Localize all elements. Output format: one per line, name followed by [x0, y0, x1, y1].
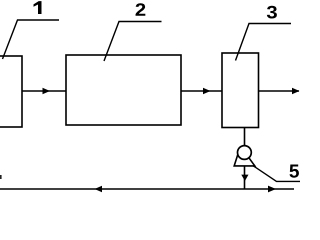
arrowhead on wire 1-2	[43, 88, 51, 94]
arrowhead pointing left on bottom line	[95, 186, 103, 192]
label 1	[34, 1, 42, 14]
wire box3 down to pump	[244, 128, 246, 148]
arrowhead on wire 2-3	[203, 88, 211, 94]
label 3	[267, 6, 277, 19]
arrowhead pointing right on bottom line	[268, 186, 276, 193]
stray tick at left edge	[0, 175, 2, 179]
wire box1 to box2	[22, 90, 66, 92]
leader line for label 1	[3, 20, 60, 59]
box 1 (unit 1, clipped at left edge)	[0, 56, 22, 127]
wire pump down to bottom line	[244, 166, 246, 189]
leader line for label 5	[254, 166, 301, 181]
arrowhead on outlet wire	[292, 88, 300, 94]
leader line for label 3	[236, 24, 292, 61]
wire box2 to box3	[181, 90, 222, 92]
label 2	[136, 3, 146, 16]
arrowhead pointing down to bottom line	[241, 175, 248, 181]
pump 5 trapezoid body	[234, 149, 255, 166]
pump 5 circle	[238, 146, 252, 160]
label 5	[290, 165, 299, 178]
box 3 (unit 3)	[222, 53, 259, 128]
bottom recycle line	[0, 188, 294, 190]
box 2 (unit 2)	[66, 55, 181, 125]
leader line for label 2	[104, 22, 162, 62]
outlet wire right of box 3	[259, 90, 300, 92]
